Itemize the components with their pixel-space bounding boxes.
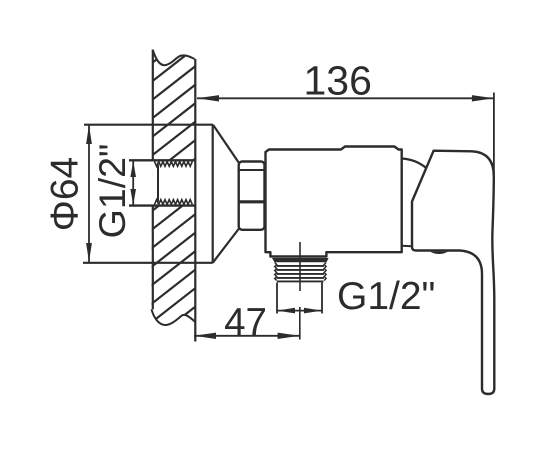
svg-text:G1/2": G1/2" bbox=[91, 144, 133, 239]
svg-text:136: 136 bbox=[303, 58, 371, 104]
svg-text:G1/2": G1/2" bbox=[337, 275, 435, 318]
svg-text:47: 47 bbox=[224, 301, 267, 344]
svg-text:Φ64: Φ64 bbox=[44, 157, 87, 232]
